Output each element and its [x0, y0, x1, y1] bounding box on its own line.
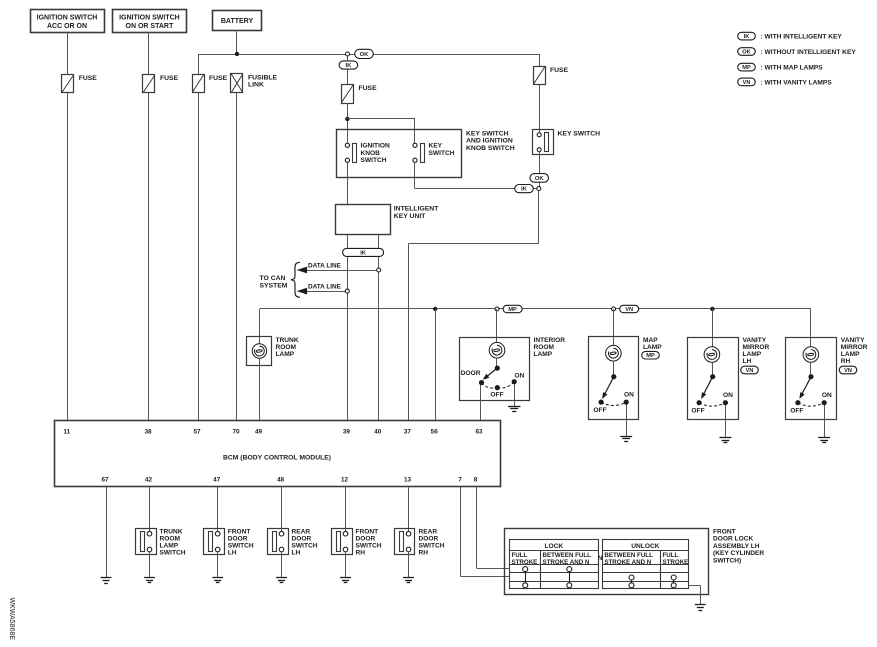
capsule VN on bus — [620, 305, 639, 313]
svg-text:(KEY CYLINDER: (KEY CYLINDER — [713, 550, 764, 557]
svg-text:INTELLIGENT: INTELLIGENT — [394, 206, 439, 213]
svg-text:DOOR: DOOR — [419, 536, 439, 543]
wire: connector down and left to pin 37 drop — [408, 190, 538, 243]
svg-text:KEY UNIT: KEY UNIT — [394, 213, 426, 220]
node: bus junction to vanity LH — [710, 307, 714, 311]
label: TRUNK ROOM LAMP — [276, 337, 299, 358]
svg-text:KEY: KEY — [429, 143, 443, 150]
svg-text:47: 47 — [213, 476, 221, 483]
svg-text:ACC OR ON: ACC OR ON — [47, 23, 87, 30]
svg-text:SWITCH: SWITCH — [356, 543, 382, 550]
svg-text:ROOM: ROOM — [276, 344, 297, 351]
svg-text:RH: RH — [356, 550, 366, 557]
svg-text:OFF: OFF — [790, 408, 803, 415]
wire: BCM pin 42 to trunk lamp switch — [149, 487, 151, 532]
component box: BCM (BODY CONTROL MODULE) with pin numbers — [55, 421, 501, 487]
svg-text:37: 37 — [404, 428, 412, 435]
svg-text:ON: ON — [822, 392, 832, 399]
svg-text:FUSE: FUSE — [209, 75, 228, 82]
wire: bus to interior lamp — [496, 309, 498, 343]
svg-text:: WITH INTELLIGENT KEY: : WITH INTELLIGENT KEY — [761, 34, 843, 41]
label: KEY SWITCH AND IGNITION KNOB SWITCH — [466, 130, 515, 152]
svg-text:UNLOCK: UNLOCK — [631, 543, 659, 550]
fuse F1 — [62, 75, 98, 93]
wire: knob switch to intelligent key unit — [347, 162, 349, 204]
svg-text:LAMP: LAMP — [841, 351, 860, 358]
node: bus open connector — [346, 52, 350, 56]
svg-text:40: 40 — [374, 428, 382, 435]
svg-text:ASSEMBLY LH: ASSEMBLY LH — [713, 543, 760, 550]
svg-text:REAR: REAR — [419, 529, 438, 536]
svg-text:FULL: FULL — [512, 552, 528, 559]
label: VANITY MIRROR LAMP LH with VN capsule — [741, 337, 770, 374]
svg-text:STROKE: STROKE — [512, 559, 538, 566]
wire: bulb to switch pivot — [496, 358, 498, 369]
svg-text:STROKE: STROKE — [663, 559, 689, 566]
svg-text:VANITY: VANITY — [743, 337, 767, 344]
svg-text:: WITH MAP LAMPS: : WITH MAP LAMPS — [761, 65, 824, 72]
power source box: IGNITION SWITCH ON OR START — [113, 10, 187, 33]
contacts: LOCK between column — [567, 567, 572, 588]
svg-text:DOOR: DOOR — [461, 370, 481, 377]
component box: TRUNK ROOM LAMP — [247, 337, 272, 366]
label: BETWEEN FULL STROKE AND N col3 — [604, 552, 653, 566]
wire: rear door switch LH to ground — [281, 552, 283, 578]
svg-text:49: 49 — [255, 428, 263, 435]
svg-text:KEY SWITCH: KEY SWITCH — [558, 130, 601, 137]
svg-text:ROOM: ROOM — [534, 344, 555, 351]
wire: rear door switch RH to ground — [408, 552, 410, 578]
capsule MP on bus — [503, 305, 522, 313]
node: key switch branch connector — [537, 187, 541, 191]
wire: drop to BCM pin 37 — [408, 244, 410, 421]
wire: fusible link to BCM pin 70 — [236, 93, 238, 421]
svg-text:FUSE: FUSE — [160, 75, 179, 82]
svg-text:MIRROR: MIRROR — [841, 344, 868, 351]
capsule OK on bus — [355, 49, 374, 58]
component box: KEY SWITCH AND IGNITION KNOB SWITCH — [337, 130, 462, 178]
svg-text:LAMP: LAMP — [534, 351, 553, 358]
wire: branch to key switch contact — [347, 119, 415, 144]
svg-text:FRONT: FRONT — [356, 529, 379, 536]
svg-text:56: 56 — [431, 428, 439, 435]
wire: interior lamp ON contact to ground — [514, 384, 516, 406]
ground: key cylinder switch — [695, 605, 706, 611]
wire: fuse F5 to key switch — [539, 85, 541, 132]
node: data line 1 tap — [377, 268, 381, 272]
svg-text:8: 8 — [474, 476, 478, 483]
wire: ignition ACC feed to fuse — [67, 32, 69, 75]
capsule IK below bus — [339, 61, 358, 69]
svg-text:KNOB SWITCH: KNOB SWITCH — [466, 145, 515, 152]
svg-text:SWITCH: SWITCH — [361, 157, 387, 164]
label: INTERIOR ROOM LAMP — [534, 337, 566, 358]
svg-text:ON: ON — [723, 392, 733, 399]
svg-text:LH: LH — [743, 358, 752, 365]
svg-text:SYSTEM: SYSTEM — [260, 282, 288, 289]
wire: key switch down to OK tag — [539, 152, 541, 187]
svg-text:DATA LINE: DATA LINE — [308, 284, 342, 291]
svg-text:LH: LH — [292, 550, 301, 557]
label: MAP LAMP with MP capsule — [642, 337, 663, 359]
svg-text:VN: VN — [746, 368, 754, 374]
wire: front door switch RH to ground — [345, 552, 347, 578]
svg-text:FULL: FULL — [663, 552, 679, 559]
svg-text:OK: OK — [535, 176, 545, 182]
capsule IK on horizontal link — [515, 185, 534, 193]
component box: VANITY MIRROR LAMP LH — [688, 338, 739, 420]
switch: ignition knob switch contacts — [345, 143, 390, 164]
fuse F3 — [193, 75, 228, 93]
svg-text:OK: OK — [360, 52, 370, 58]
wire: BCM pin 48 to rear door switch LH — [281, 487, 283, 532]
svg-text:REAR: REAR — [292, 529, 311, 536]
component box: MAP LAMP — [589, 337, 639, 420]
svg-text:LAMP: LAMP — [160, 543, 179, 550]
svg-text:FRONT: FRONT — [228, 529, 251, 536]
svg-text:N: N — [598, 555, 603, 562]
ground: rear door switch LH — [276, 578, 287, 583]
fusible link FL — [231, 74, 278, 94]
label: N between tables — [598, 555, 603, 562]
svg-text:LINK: LINK — [248, 82, 264, 89]
svg-text:STROKE AND N: STROKE AND N — [604, 559, 651, 566]
svg-text:LOCK: LOCK — [544, 543, 563, 550]
contacts: UNLOCK between column — [629, 575, 634, 588]
wire: key cylinder switch to ground — [689, 585, 701, 605]
component: TRUNK ROOM LAMP SWITCH — [136, 529, 186, 557]
svg-text:48: 48 — [277, 476, 285, 483]
wire: IKU right output to BCM pin 40 — [378, 235, 380, 421]
svg-text:42: 42 — [145, 476, 153, 483]
svg-text:LAMP: LAMP — [743, 351, 762, 358]
node: bus tap for map lamp — [612, 307, 616, 311]
wire: bus left end down to trunk lamp — [259, 309, 261, 344]
wire: interior lamp DOOR contact to BCM pin 63 — [480, 385, 482, 421]
node: battery bus junction — [235, 52, 239, 56]
svg-text:SWITCH: SWITCH — [419, 543, 445, 550]
label: watermark WKWA5868E — [8, 598, 15, 641]
wire: fuse F2 to BCM pin 38 — [148, 93, 150, 421]
svg-text:: WITHOUT INTELLIGENT KEY: : WITHOUT INTELLIGENT KEY — [761, 49, 857, 56]
wire: fuse F1 to BCM pin 11 — [67, 93, 69, 421]
node: junction above switch box — [345, 117, 349, 121]
svg-text:BETWEEN FULL: BETWEEN FULL — [604, 552, 653, 559]
component box: front door lock assembly key cylinder switch table — [505, 529, 709, 595]
svg-text:OFF: OFF — [593, 407, 606, 414]
component: KEY SWITCH (with key cylinder) — [533, 130, 601, 155]
component: FRONT DOOR SWITCH RH — [332, 529, 382, 557]
svg-text:MP: MP — [508, 307, 517, 313]
wire: fuse F3 to BCM pin 57 — [198, 93, 200, 421]
svg-text:INTERIOR: INTERIOR — [534, 337, 566, 344]
wire: vanity RH bulb to pivot — [810, 362, 812, 377]
lamp: trunk room lamp bulb — [252, 344, 266, 358]
power source box: BATTERY — [213, 11, 262, 31]
label: VANITY MIRROR LAMP RH with VN capsule — [839, 337, 868, 374]
svg-text:IGNITION SWITCH: IGNITION SWITCH — [119, 15, 180, 22]
svg-text:ROOM: ROOM — [160, 536, 181, 543]
svg-text:38: 38 — [144, 428, 152, 435]
label: FULL STROKE col1 — [512, 552, 538, 566]
lamp: interior room lamp bulb — [489, 342, 505, 358]
wire: fuse F4 down to knob switch — [347, 103, 349, 143]
wire: bus right end down to fuse F5 — [539, 54, 541, 66]
svg-text:FRONT: FRONT — [713, 529, 736, 536]
svg-text:SWITCH): SWITCH) — [713, 557, 741, 564]
svg-text:7: 7 — [458, 476, 462, 483]
wire: BCM pin 8 to key cylinder switch — [477, 487, 510, 569]
switch: map lamp switch — [593, 374, 634, 414]
wire: trunk lamp switch to ground — [149, 552, 151, 578]
svg-text:BATTERY: BATTERY — [221, 18, 254, 25]
svg-text:WKWA5868E: WKWA5868E — [8, 598, 15, 641]
svg-text:VN: VN — [743, 80, 751, 86]
switch: vanity LH switch — [691, 374, 733, 414]
svg-text:TRUNK: TRUNK — [160, 529, 183, 536]
component box: VANITY MIRROR LAMP RH — [786, 338, 837, 420]
svg-text:STROKE AND N: STROKE AND N — [543, 559, 590, 566]
svg-text:67: 67 — [101, 476, 109, 483]
wire: map bulb to pivot — [613, 361, 615, 377]
wire: bus junction to BCM pin 56 — [435, 309, 437, 421]
wire: ignition ON/START feed to fuse — [148, 32, 150, 75]
svg-text:LH: LH — [228, 550, 237, 557]
svg-text:TO CAN: TO CAN — [260, 275, 286, 282]
svg-text:IK: IK — [360, 250, 367, 256]
wire: vanity LH ON to ground — [725, 405, 727, 437]
ground: front door switch RH — [340, 578, 351, 583]
svg-text:IGNITION: IGNITION — [361, 143, 391, 150]
wire: battery horizontal bus — [198, 54, 539, 56]
svg-text:70: 70 — [232, 428, 240, 435]
ground: vanity LH — [719, 438, 731, 443]
lamp: vanity RH bulb — [803, 347, 819, 363]
switch: interior lamp 3-position switch — [461, 366, 525, 399]
capsule IK stadium across IKU outputs — [343, 248, 384, 256]
ground: pin 67 — [101, 578, 112, 584]
component box: INTERIOR ROOM LAMP — [460, 338, 530, 401]
svg-text:VANITY: VANITY — [841, 337, 865, 344]
svg-text:KEY SWITCH: KEY SWITCH — [466, 130, 509, 137]
svg-text:LAMP: LAMP — [643, 344, 662, 351]
wire: box key switch contact down — [414, 162, 416, 188]
svg-text:57: 57 — [193, 428, 201, 435]
contacts: UNLOCK full stroke column — [671, 575, 676, 588]
svg-text:11: 11 — [63, 428, 70, 435]
svg-text:FUSE: FUSE — [359, 85, 378, 92]
wire: BCM pin 12 to front door switch RH — [345, 487, 347, 532]
svg-text:13: 13 — [404, 476, 412, 483]
svg-text:OFF: OFF — [691, 408, 704, 415]
wire: room lamp bus — [260, 308, 811, 310]
ground: rear door switch RH — [403, 578, 414, 583]
svg-text:BCM (BODY CONTROL MODULE): BCM (BODY CONTROL MODULE) — [223, 454, 331, 461]
svg-text:IK: IK — [345, 63, 352, 69]
ground: front door switch LH — [212, 578, 223, 583]
component box: INTELLIGENT KEY UNIT — [336, 205, 440, 235]
label: LOCK header — [544, 543, 563, 550]
component: REAR DOOR SWITCH RH — [395, 529, 445, 557]
ground: map lamp — [620, 437, 632, 442]
wire: BCM pin 67 to ground — [106, 487, 108, 578]
svg-text:MAP: MAP — [643, 337, 658, 344]
svg-text:OK: OK — [742, 50, 750, 56]
svg-text:DATA LINE: DATA LINE — [308, 262, 342, 269]
label: FRONT DOOR LOCK ASSEMBLY LH (KEY CYLINDER SWITCH) — [713, 529, 764, 565]
lamp: map lamp bulb — [606, 345, 622, 361]
svg-text:FUSE: FUSE — [79, 75, 98, 82]
switch: vanity RH switch — [790, 374, 832, 414]
svg-text:IGNITION SWITCH: IGNITION SWITCH — [37, 15, 98, 22]
wire: bus left branch down — [198, 54, 200, 74]
svg-text:ON: ON — [515, 373, 525, 380]
svg-text:AND IGNITION: AND IGNITION — [466, 138, 513, 145]
svg-text:KNOB: KNOB — [361, 150, 381, 157]
svg-text:DOOR LOCK: DOOR LOCK — [713, 536, 754, 543]
wire: map lamp ON to ground — [626, 405, 628, 437]
switch: key switch contacts (inside box) — [413, 143, 455, 163]
label: FULL STROKE col4 — [663, 552, 689, 566]
svg-text:FUSIBLE: FUSIBLE — [248, 75, 278, 82]
svg-text:FUSE: FUSE — [550, 67, 569, 74]
svg-text:SWITCH: SWITCH — [429, 150, 455, 157]
wire: bus to map lamp — [613, 309, 615, 346]
svg-text:MIRROR: MIRROR — [743, 344, 770, 351]
svg-text:DOOR: DOOR — [356, 536, 376, 543]
svg-text:SWITCH: SWITCH — [228, 543, 254, 550]
svg-text:DOOR: DOOR — [292, 536, 312, 543]
node: bus tap for interior lamp — [495, 307, 499, 311]
svg-text:12: 12 — [341, 476, 349, 483]
power source box: IGNITION SWITCH ACC OR ON — [31, 10, 105, 33]
ground: trunk room lamp switch — [144, 578, 155, 583]
svg-text:MP: MP — [742, 65, 751, 71]
label: UNLOCK header — [631, 543, 659, 550]
svg-text:OFF: OFF — [490, 392, 503, 399]
svg-text:SWITCH: SWITCH — [292, 543, 318, 550]
wire: battery drop to bus — [236, 30, 238, 54]
component: REAR DOOR SWITCH LH — [268, 529, 318, 557]
wire: trunk lamp to BCM pin 49 — [259, 358, 261, 421]
fuse F4 — [342, 85, 378, 104]
ground: vanity RH — [818, 438, 830, 443]
component: FRONT DOOR SWITCH LH — [204, 529, 254, 557]
wire: data line 1 with arrow to CAN — [297, 262, 377, 273]
fuse F2 — [143, 75, 179, 93]
svg-text:TRUNK: TRUNK — [276, 337, 299, 344]
svg-text:MP: MP — [646, 353, 655, 359]
svg-text:ON OR START: ON OR START — [126, 23, 174, 30]
svg-text:IK: IK — [521, 187, 528, 193]
svg-text:39: 39 — [343, 428, 351, 435]
wire: IKU left output to BCM pin 39 — [347, 235, 349, 421]
wire: BCM pin 47 to front door switch LH — [217, 487, 219, 532]
node: bus junction to pin 56 — [433, 307, 437, 311]
svg-text:63: 63 — [475, 428, 483, 435]
wire: front door switch LH to ground — [217, 552, 219, 578]
svg-text:IK: IK — [744, 34, 750, 40]
contacts: LOCK full stroke column — [523, 567, 528, 588]
lamp: vanity LH bulb — [704, 347, 720, 363]
svg-text:BETWEEN FULL: BETWEEN FULL — [543, 552, 592, 559]
wire: data line 2 with arrow to CAN — [297, 284, 346, 295]
wire: vanity LH bulb to pivot — [712, 362, 714, 377]
legend: IK/OK/MP/VN key — [738, 32, 857, 86]
wire: BCM pin 7 to key cylinder switch — [461, 487, 510, 577]
wire: BCM pin 13 to rear door switch RH — [408, 487, 410, 532]
fuse F5 — [534, 67, 569, 85]
capsule OK below key switch — [530, 174, 549, 183]
svg-text:RH: RH — [841, 358, 851, 365]
label: TO CAN SYSTEM with brace — [260, 262, 301, 297]
wire: horizontal IK link from box key switch — [415, 188, 537, 190]
wire: bus right end down to vanity RH — [810, 309, 812, 347]
wire: bus to fuse F4 via IK tag — [347, 54, 349, 84]
wire: vanity RH ON to ground — [824, 405, 826, 437]
svg-text:ON: ON — [624, 391, 634, 398]
svg-text:: WITH VANITY LAMPS: : WITH VANITY LAMPS — [761, 79, 833, 86]
ground: interior room lamp — [508, 407, 520, 412]
svg-text:LAMP: LAMP — [276, 351, 295, 358]
svg-text:DOOR: DOOR — [228, 536, 248, 543]
svg-text:SWITCH: SWITCH — [160, 550, 186, 557]
svg-text:VN: VN — [625, 307, 633, 313]
svg-text:VN: VN — [844, 368, 852, 374]
svg-text:RH: RH — [419, 550, 429, 557]
label: BETWEEN FULL STROKE AND N col2 — [543, 552, 592, 566]
wire: bus to vanity LH lamp — [712, 309, 714, 347]
node: data line 2 tap — [345, 289, 349, 293]
